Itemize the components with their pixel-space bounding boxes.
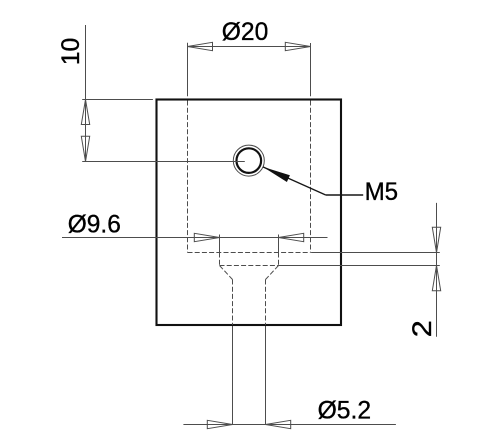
svg-text:M5: M5 bbox=[365, 178, 399, 206]
svg-text:2: 2 bbox=[407, 320, 437, 337]
svg-text:Ø5.2: Ø5.2 bbox=[318, 397, 372, 425]
svg-text:Ø9.6: Ø9.6 bbox=[68, 211, 121, 239]
svg-text:Ø20: Ø20 bbox=[222, 18, 268, 46]
svg-text:10: 10 bbox=[57, 38, 85, 66]
